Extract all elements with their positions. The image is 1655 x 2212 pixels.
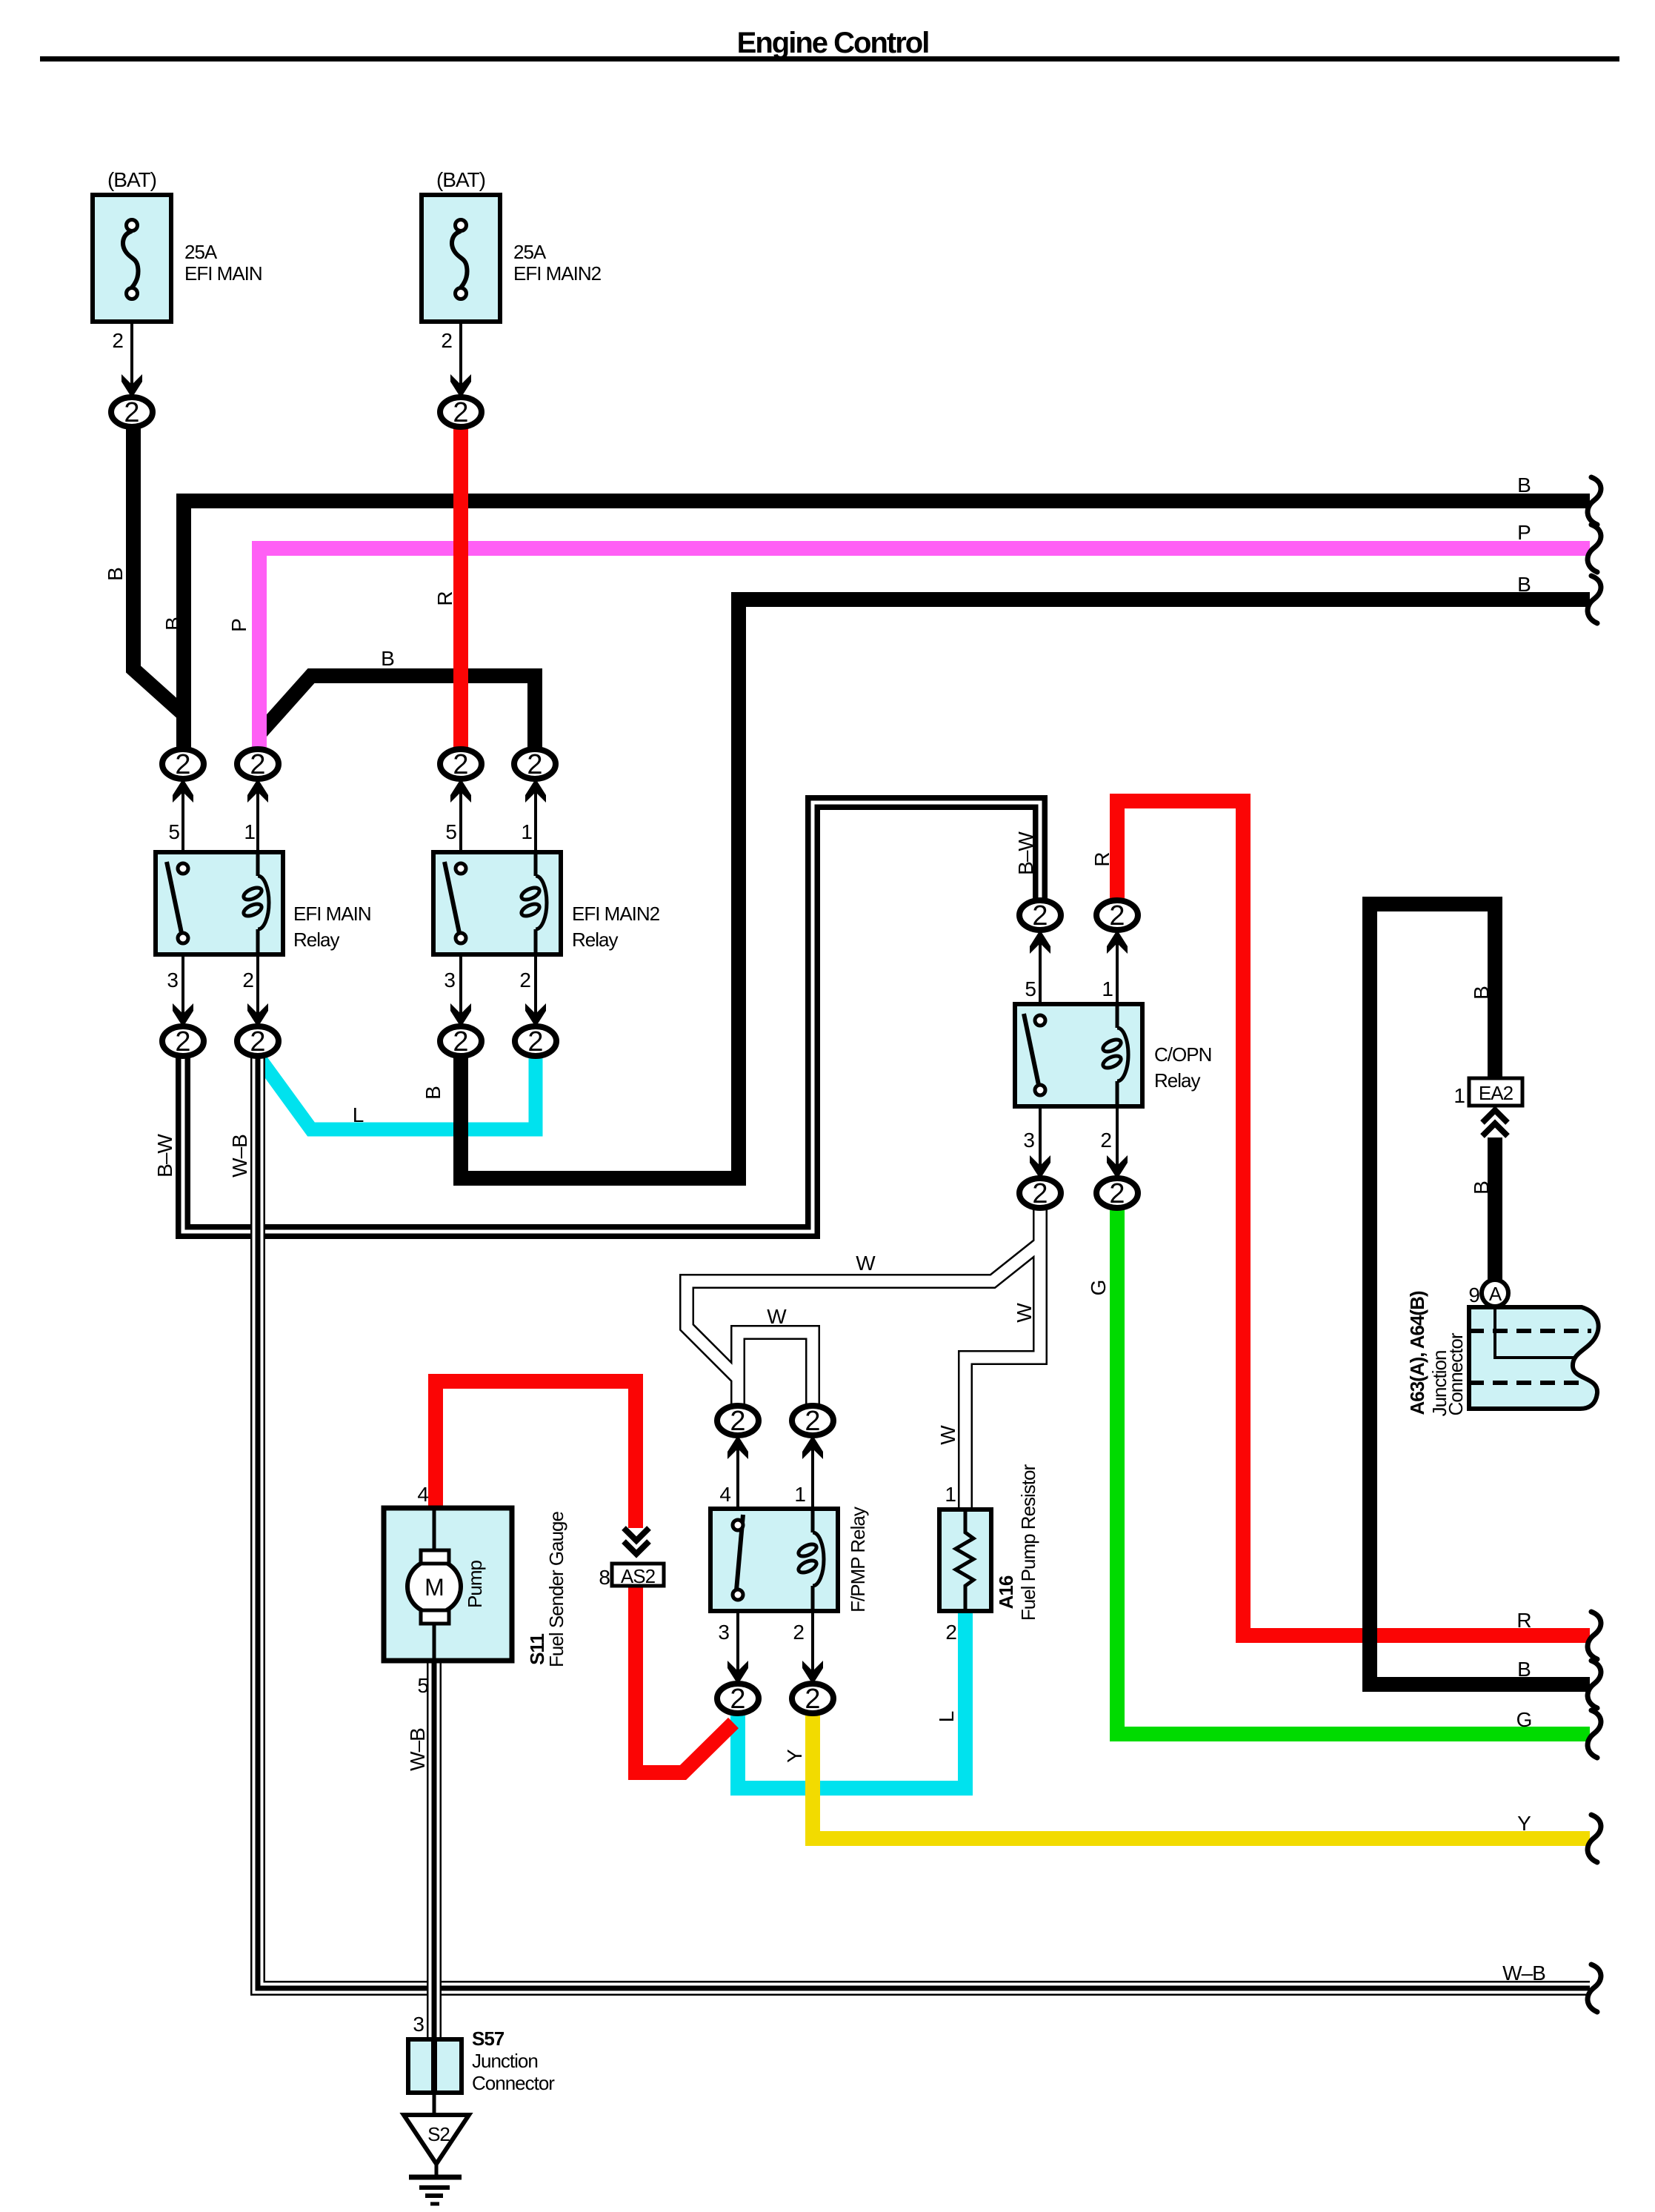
- svg-text:B: B: [1470, 986, 1493, 1000]
- svg-text:C/OPN: C/OPN: [1154, 1043, 1211, 1066]
- svg-text:2: 2: [250, 1026, 265, 1057]
- ground triangle S2: [404, 2115, 469, 2164]
- connector node 2 at (1097,1917): [792, 1406, 833, 1437]
- S57 junction connector box: [408, 2039, 462, 2093]
- junction connector internal pin line: [1495, 1307, 1576, 1358]
- svg-text:W–B: W–B: [228, 1135, 251, 1178]
- resistor A16 Fuel Pump Resistor: [939, 1509, 991, 1611]
- wire B-W from EFI MAIN relay pin3 to C/OPN relay pin5: [183, 803, 1040, 1232]
- svg-text:Y: Y: [783, 1749, 806, 1763]
- svg-text:Relay: Relay: [572, 929, 618, 951]
- wire break symbol at right edge (B1): [1588, 477, 1601, 525]
- wire Y yellow from F/PMP relay pin2 to right edge: [813, 1713, 1590, 1839]
- svg-text:B–W: B–W: [153, 1134, 176, 1178]
- connector node 2 at (996,1917): [717, 1406, 759, 1437]
- svg-text:2: 2: [1109, 1178, 1125, 1209]
- arrow down F/PMP relay pin3: [727, 1661, 748, 1684]
- arrow down EFI MAIN relay pin3: [173, 1003, 193, 1027]
- svg-text:B: B: [1517, 1658, 1531, 1681]
- connector node 2 at (1097,2292): [792, 1684, 833, 1715]
- svg-text:3: 3: [167, 969, 178, 992]
- wire break symbol at right edge (WB): [1588, 1964, 1601, 2012]
- C/OPN relay pin5 lead: [1039, 931, 1042, 1004]
- svg-text:3: 3: [718, 1621, 729, 1644]
- title: Engine Control: [40, 27, 1619, 62]
- svg-text:L: L: [353, 1103, 364, 1126]
- F/PMP relay pin4 lead: [736, 1436, 739, 1509]
- wire L cyan between EFI MAIN relay pin2 and EFI MAIN2 relay pin2: [262, 1057, 536, 1129]
- svg-text:R: R: [1516, 1609, 1531, 1632]
- svg-text:3: 3: [444, 969, 455, 992]
- svg-text:2: 2: [242, 969, 253, 992]
- svg-text:EA2: EA2: [1479, 1082, 1514, 1104]
- EFI MAIN2 relay pin2 lead: [534, 954, 537, 1026]
- svg-text:M: M: [424, 1574, 444, 1601]
- svg-text:P: P: [1517, 521, 1531, 544]
- wire W-B from S11 pin5 to S57 junction connector: [427, 1661, 442, 2039]
- connector node 2 at (247,1405): [162, 1026, 204, 1057]
- junction connector A63(A), A64(B) body: [1469, 1307, 1599, 1409]
- svg-text:2: 2: [730, 1406, 745, 1437]
- connector AS2: [612, 1564, 664, 1587]
- connector node 2 at (348,1405): [237, 1026, 279, 1057]
- svg-text:2: 2: [519, 969, 530, 992]
- svg-text:B: B: [381, 647, 394, 670]
- arrow down EFI MAIN relay pin2: [247, 1003, 268, 1027]
- svg-text:R: R: [433, 591, 456, 605]
- connector node 2 at (723,1405): [515, 1026, 556, 1057]
- C/OPN relay pin1 lead: [1116, 931, 1119, 1004]
- fuse EFI MAIN2 pin2 lead: [459, 322, 462, 399]
- wire G green from C/OPN relay pin2 to right edge: [1117, 1208, 1590, 1734]
- svg-text:Relay: Relay: [293, 929, 339, 951]
- C/OPN relay pin2 lead: [1116, 1106, 1119, 1178]
- svg-text:2: 2: [1032, 900, 1048, 931]
- relay F/PMP Relay: [710, 1509, 838, 1611]
- svg-text:Relay: Relay: [1154, 1069, 1200, 1092]
- fuse EFI MAIN pin2 lead: [130, 322, 133, 399]
- svg-text:Y: Y: [1517, 1812, 1531, 1835]
- arrow up F/PMP relay pin4: [727, 1435, 748, 1459]
- F/PMP relay pin3 lead: [736, 1610, 739, 1683]
- wire break symbol at right edge (P): [1588, 525, 1601, 572]
- F/PMP relay pin1 lead: [811, 1436, 814, 1509]
- svg-text:S57: S57: [472, 2027, 505, 2050]
- connector node 2 at (996,2292): [717, 1684, 759, 1715]
- svg-text:2: 2: [527, 749, 542, 780]
- relay C/OPN Relay: [1015, 1004, 1142, 1106]
- svg-text:2: 2: [453, 1026, 468, 1057]
- connector node 2 at (1404,1610): [1019, 1178, 1061, 1209]
- wire break symbol at right edge (R): [1588, 1612, 1601, 1659]
- fuse F1 25A EFI MAIN: [93, 195, 171, 322]
- arrow up F/PMP relay pin1: [802, 1435, 823, 1459]
- connector node 2 at (722,1031): [514, 749, 556, 780]
- wire W-B from EFI MAIN relay pin2 to right edge: [258, 1055, 1590, 1988]
- svg-text:2: 2: [124, 397, 139, 428]
- connector node 2 at (178,556): [111, 397, 153, 428]
- wire B from fuse EFI MAIN to node, B to right edge: [133, 422, 1590, 750]
- arrow down C/OPN relay pin3: [1030, 1155, 1050, 1179]
- svg-text:1: 1: [521, 820, 532, 843]
- connector node 2 at (1508,1610): [1096, 1178, 1138, 1209]
- svg-text:(BAT): (BAT): [107, 168, 156, 191]
- EFI MAIN2 relay pin3 lead: [459, 954, 462, 1026]
- wire R red from fuse EFI MAIN2 to EFI MAIN2 relay pin5: [453, 422, 468, 750]
- svg-text:Engine Control: Engine Control: [737, 27, 929, 59]
- EFI MAIN relay pin1 lead: [256, 780, 259, 852]
- connector node 2 at (247,1031): [162, 749, 204, 780]
- svg-text:2: 2: [453, 749, 468, 780]
- arrow up C/OPN relay pin5: [1030, 930, 1050, 954]
- svg-text:2: 2: [1100, 1129, 1111, 1152]
- svg-text:W: W: [767, 1305, 787, 1328]
- svg-text:AS2: AS2: [621, 1565, 656, 1587]
- svg-text:5: 5: [445, 820, 456, 843]
- chevron arrows into AS2: [624, 1528, 649, 1554]
- svg-text:B: B: [1470, 1181, 1493, 1195]
- svg-text:W–B: W–B: [1502, 1962, 1545, 1985]
- svg-text:A16: A16: [995, 1575, 1017, 1609]
- svg-text:2: 2: [175, 749, 190, 780]
- arrow down EFI MAIN2 relay pin2: [525, 1003, 546, 1027]
- svg-text:EFI MAIN2: EFI MAIN2: [572, 903, 660, 925]
- svg-text:Connector: Connector: [472, 2072, 555, 2094]
- wire break symbol at right edge (G): [1588, 1710, 1601, 1758]
- connector node 2 at (348,1031): [237, 749, 279, 780]
- arrow up EFI MAIN2 relay pin1: [525, 779, 546, 803]
- svg-text:EFI MAIN: EFI MAIN: [293, 903, 371, 925]
- relay EFI MAIN2 Relay: [433, 852, 561, 954]
- wire break symbol at right edge (B3): [1588, 1661, 1601, 1708]
- svg-text:2: 2: [730, 1684, 745, 1715]
- svg-text:25A: 25A: [184, 241, 218, 263]
- wire B from EA2 to junction connector circle A: [1488, 1137, 1502, 1282]
- arrow up EFI MAIN2 relay pin5: [450, 779, 471, 803]
- svg-text:2: 2: [1109, 900, 1125, 931]
- S11 Fuel Sender Gauge with pump motor M: [384, 1508, 512, 1661]
- connector node 2 at (622,1031): [440, 749, 482, 780]
- arrow down into connector below fuse EFI MAIN: [121, 374, 142, 398]
- svg-text:B: B: [1517, 573, 1531, 596]
- svg-text:B: B: [104, 568, 127, 581]
- svg-text:3: 3: [413, 2013, 424, 2036]
- svg-text:2: 2: [945, 1621, 956, 1644]
- wire B between EFI MAIN relay pin1 and EFI MAIN2 relay pin1: [261, 676, 535, 750]
- svg-text:A63(A), A64(B): A63(A), A64(B): [1406, 1291, 1428, 1415]
- svg-text:Pump: Pump: [464, 1561, 486, 1608]
- wire L cyan from F/PMP relay pin3 to fuel pump resistor pin2: [738, 1611, 965, 1788]
- svg-text:2: 2: [441, 329, 452, 352]
- svg-text:A: A: [1489, 1283, 1502, 1305]
- svg-text:W: W: [936, 1425, 959, 1445]
- svg-text:(BAT): (BAT): [436, 168, 485, 191]
- svg-text:G: G: [1087, 1281, 1110, 1296]
- connector node 2 at (622,1405): [440, 1026, 482, 1057]
- svg-text:2: 2: [175, 1026, 190, 1057]
- svg-text:3: 3: [1023, 1129, 1034, 1152]
- junction connector dashed row lines: [1469, 1329, 1591, 1333]
- svg-text:B–W: B–W: [1014, 831, 1037, 875]
- svg-text:W–B: W–B: [406, 1728, 429, 1771]
- EFI MAIN2 relay pin5 lead: [459, 780, 462, 852]
- svg-text:W: W: [1013, 1303, 1036, 1323]
- EFI MAIN relay pin5 lead: [182, 780, 184, 852]
- svg-text:1: 1: [1102, 977, 1113, 1000]
- wire R red from S11 pin4 over to AS2 and to F/PMP relay pin3: [436, 1381, 733, 1773]
- ground symbol: [409, 2162, 462, 2204]
- C/OPN relay pin3 lead: [1039, 1106, 1042, 1178]
- svg-text:2: 2: [453, 397, 468, 428]
- svg-text:Fuel Pump Resistor: Fuel Pump Resistor: [1017, 1464, 1039, 1621]
- EFI MAIN relay pin2 lead: [256, 954, 259, 1026]
- connector node 2 at (622,556): [440, 397, 482, 428]
- connector node 2 at (1508,1235): [1096, 900, 1138, 931]
- fuse F2 25A EFI MAIN2: [422, 195, 500, 322]
- svg-text:B: B: [161, 617, 184, 631]
- svg-text:2: 2: [112, 329, 123, 352]
- svg-text:5: 5: [1025, 977, 1036, 1000]
- svg-text:L: L: [935, 1711, 958, 1722]
- chevron arrows into EA2: [1482, 1110, 1508, 1136]
- svg-text:R: R: [1090, 852, 1113, 866]
- svg-text:1: 1: [945, 1483, 956, 1506]
- svg-text:Fuel Sender Gauge: Fuel Sender Gauge: [545, 1512, 567, 1667]
- svg-text:9: 9: [1468, 1283, 1479, 1306]
- svg-text:P: P: [227, 619, 250, 632]
- node A pin 9 circle: [1482, 1280, 1508, 1306]
- EFI MAIN relay pin3 lead: [182, 954, 184, 1026]
- connector EA2: [1469, 1078, 1522, 1106]
- svg-text:EFI MAIN: EFI MAIN: [184, 262, 262, 285]
- svg-text:W: W: [856, 1252, 876, 1275]
- svg-text:4: 4: [719, 1483, 730, 1506]
- arrow up EFI MAIN relay pin5: [173, 779, 193, 803]
- connector node 2 at (1404,1235): [1019, 900, 1061, 931]
- relay EFI MAIN Relay: [156, 852, 283, 954]
- svg-text:4: 4: [417, 1483, 428, 1506]
- wire P pink from right edge to EFI MAIN relay pin1: [259, 548, 1590, 750]
- wire break symbol at right edge (Y): [1588, 1815, 1601, 1862]
- wire W from C/OPN relay pin3 to fuel pump resistor pin1: [965, 1208, 1040, 1509]
- F/PMP relay pin2 lead: [811, 1610, 814, 1683]
- arrow up EFI MAIN relay pin1: [247, 779, 268, 803]
- svg-text:EFI MAIN2: EFI MAIN2: [513, 262, 602, 285]
- arrow down C/OPN relay pin2: [1107, 1155, 1128, 1179]
- svg-text:2: 2: [250, 749, 265, 780]
- svg-text:F/PMP Relay: F/PMP Relay: [847, 1507, 869, 1612]
- lead from S57 to ground S2: [433, 2093, 436, 2115]
- wire R red from C/OPN relay pin1 to right edge: [1117, 801, 1590, 1635]
- svg-text:1: 1: [244, 820, 255, 843]
- svg-text:B: B: [1517, 474, 1531, 496]
- svg-text:5: 5: [417, 1674, 428, 1697]
- svg-text:2: 2: [805, 1406, 820, 1437]
- svg-text:5: 5: [168, 820, 179, 843]
- wire B black loop to EA2 and right edge: [1370, 904, 1590, 1684]
- wire break symbol at right edge (B2): [1588, 576, 1601, 623]
- svg-text:B: B: [422, 1086, 444, 1100]
- arrow down EFI MAIN2 relay pin3: [450, 1003, 471, 1027]
- svg-text:8: 8: [599, 1566, 610, 1589]
- wire W from C/OPN relay pin3 to F/PMP relay pins 4 and 1: [687, 1208, 1040, 1509]
- svg-text:S2: S2: [427, 2123, 450, 2145]
- arrow down into connector below fuse EFI MAIN2: [450, 374, 471, 398]
- svg-text:2: 2: [1032, 1178, 1048, 1209]
- svg-text:Junction: Junction: [472, 2050, 538, 2072]
- svg-text:25A: 25A: [513, 241, 547, 263]
- svg-text:Connector: Connector: [1445, 1332, 1467, 1415]
- EFI MAIN2 relay pin1 lead: [534, 780, 537, 852]
- svg-text:1: 1: [1453, 1084, 1465, 1107]
- arrow up C/OPN relay pin1: [1107, 930, 1128, 954]
- wire B from EFI MAIN2 relay pin3 to right edge: [461, 600, 1590, 1178]
- svg-text:G: G: [1516, 1708, 1532, 1731]
- svg-text:2: 2: [793, 1621, 804, 1644]
- svg-text:1: 1: [794, 1483, 805, 1506]
- svg-text:2: 2: [805, 1684, 820, 1715]
- arrow down F/PMP relay pin2: [802, 1661, 823, 1684]
- svg-text:2: 2: [527, 1026, 543, 1057]
